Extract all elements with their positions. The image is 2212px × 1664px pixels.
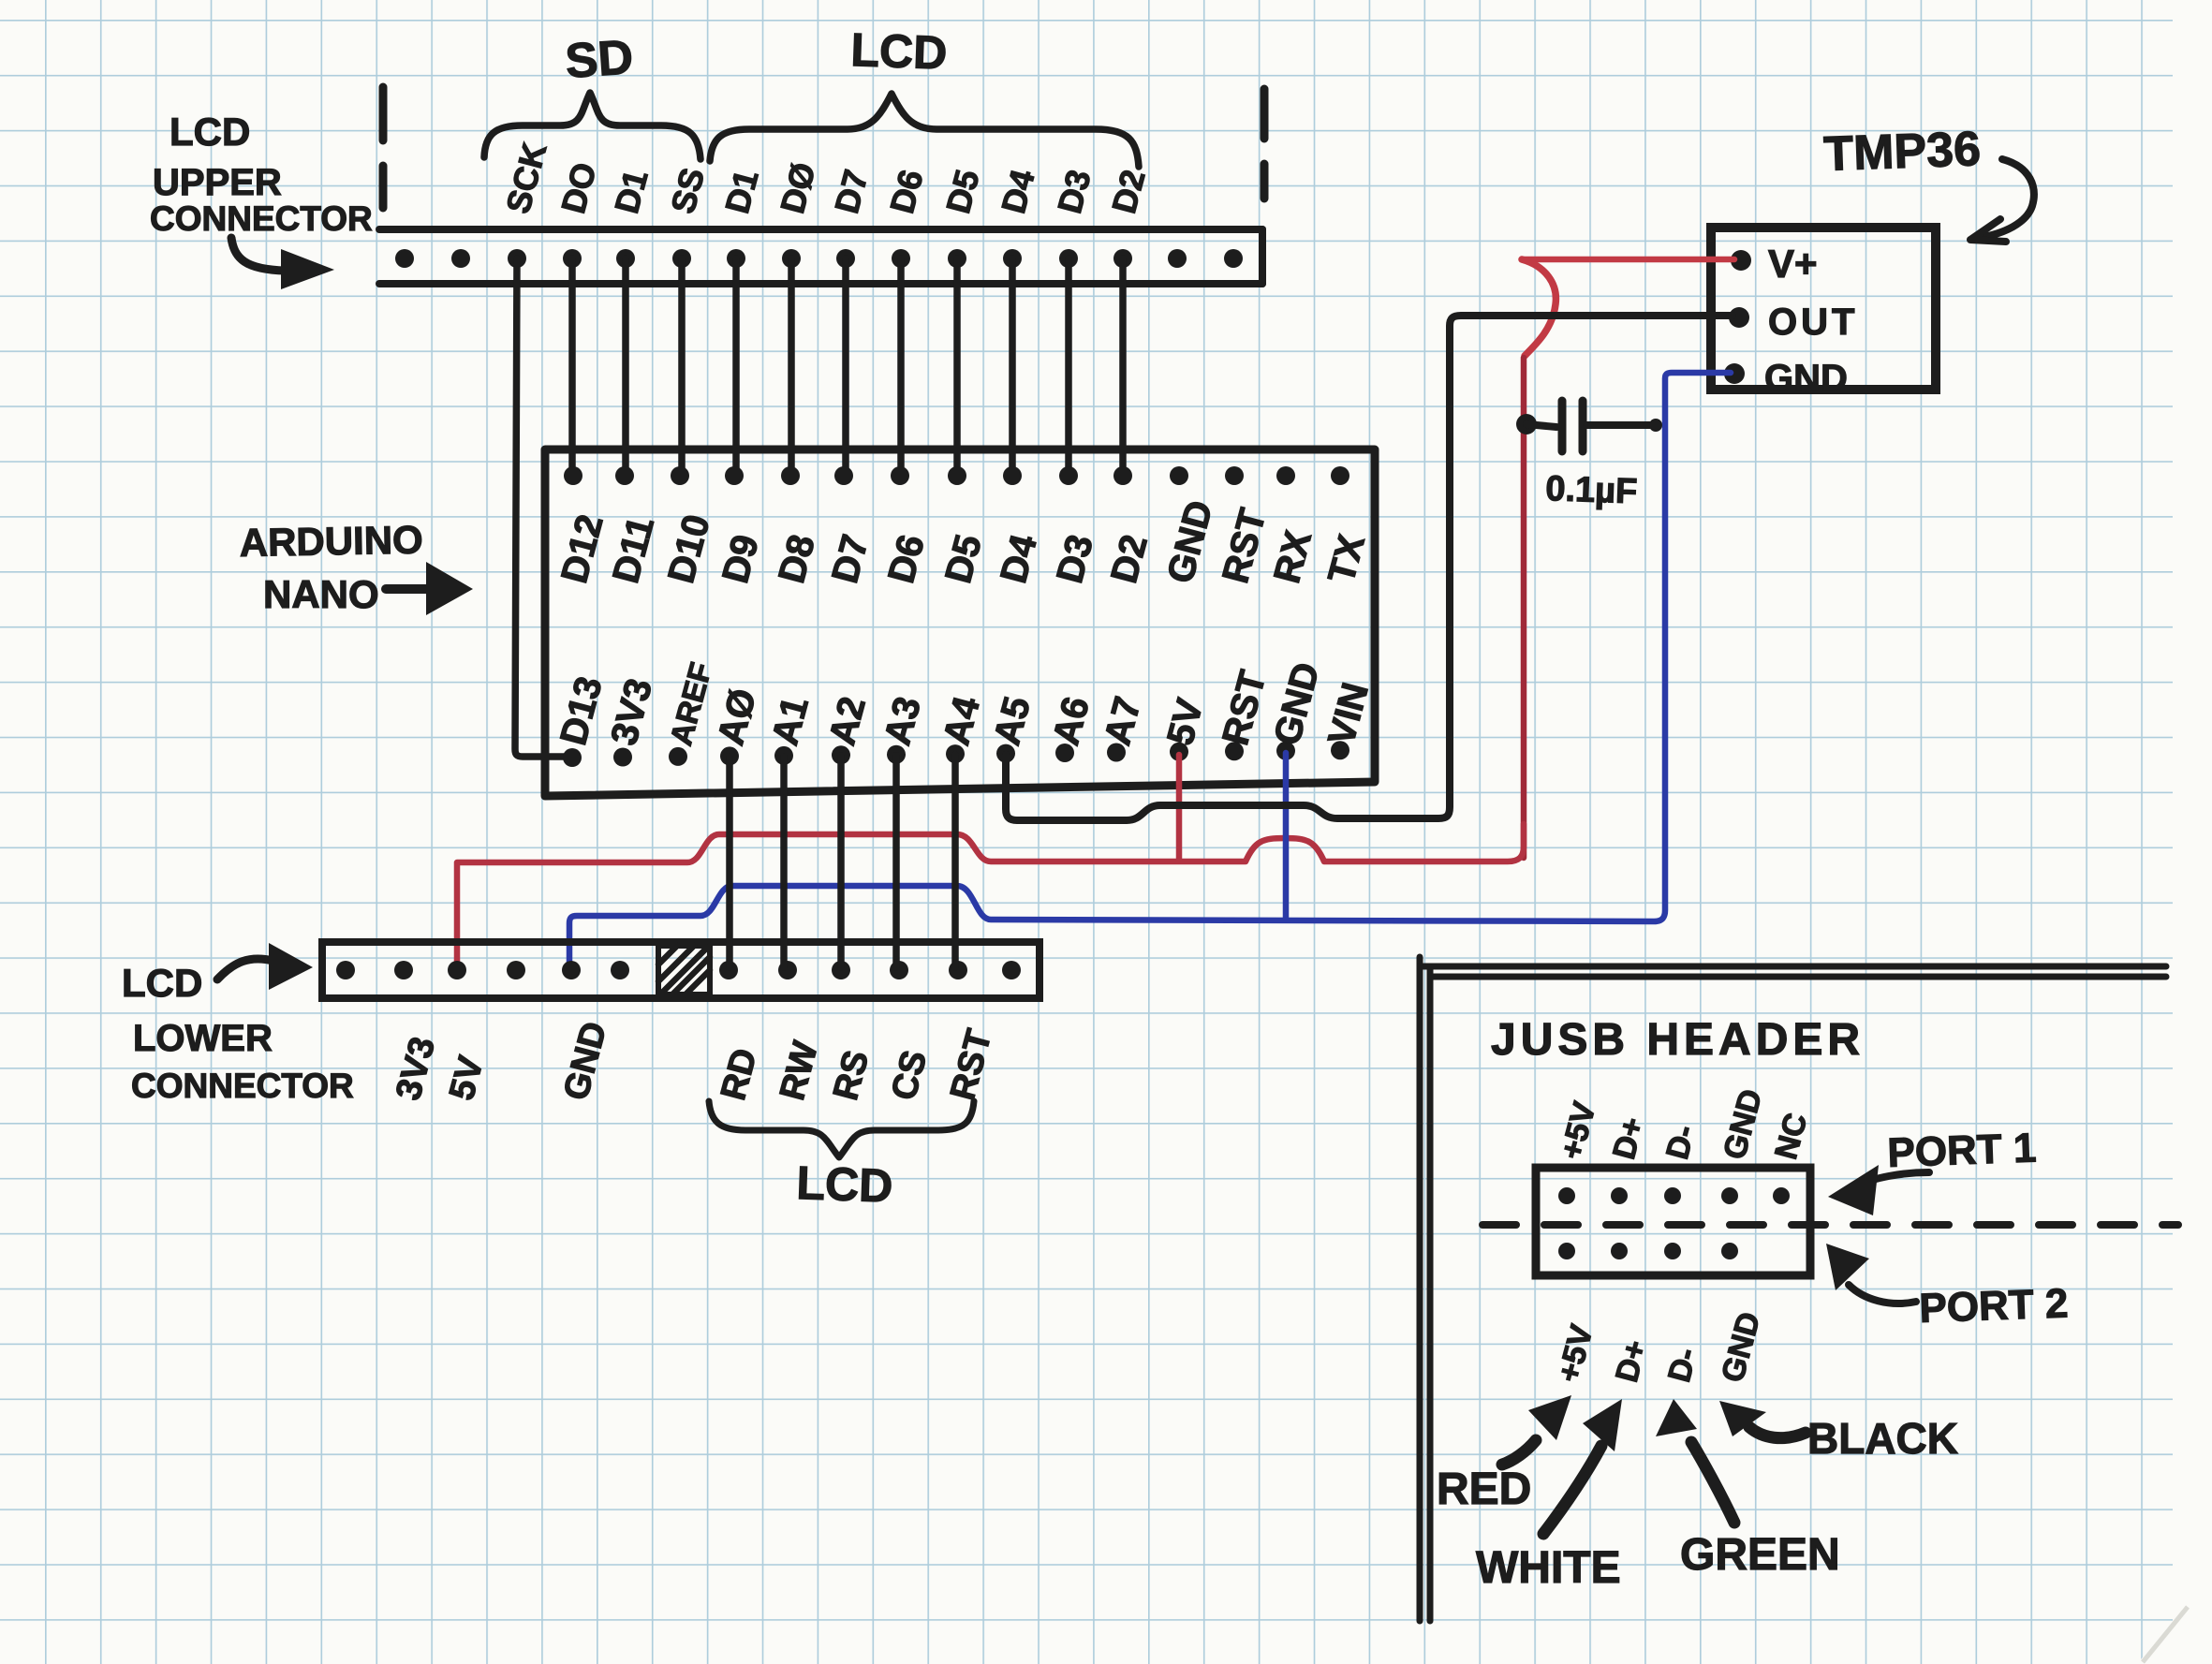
wire A3-CS — [892, 756, 900, 967]
svg-text:PORT 2: PORT 2 — [1919, 1280, 2070, 1332]
JUSB bottom pin labels — [1551, 1308, 1767, 1386]
label PORT 1 with arrow — [1828, 1125, 2037, 1215]
wire GND (blue): Arduino GND stub — [1283, 753, 1290, 920]
svg-text:LCD: LCD — [850, 23, 949, 80]
Arduino top row pin labels — [553, 496, 1373, 587]
wire D5-D5 — [953, 258, 961, 476]
svg-text:CONNECTOR: CONNECTOR — [150, 199, 373, 238]
IC U1: Arduino Nano body — [545, 449, 1375, 796]
label WHITE with arrow to D+ — [1476, 1399, 1622, 1593]
Arduino top row pins — [564, 466, 1349, 485]
svg-text:OUT: OUT — [1768, 302, 1858, 343]
svg-text:TMP36: TMP36 — [1822, 122, 1982, 182]
JUSB port2 pins — [1558, 1243, 1738, 1259]
label GREEN with arrow to D- — [1656, 1399, 1840, 1580]
svg-text:LCD: LCD — [170, 110, 250, 154]
JUSB top pin labels — [1554, 1085, 1814, 1163]
wire A0-RD — [726, 757, 733, 967]
svg-text:ARDUINO: ARDUINO — [239, 518, 423, 565]
label PORT 2 with arrow — [1826, 1244, 2069, 1332]
svg-text:CONNECTOR: CONNECTOR — [131, 1067, 354, 1105]
wire GND (blue): bottom bus — [569, 373, 1731, 966]
wire A2-RS — [837, 756, 845, 967]
wire SS-D10 — [678, 258, 686, 476]
connector J3: JUSB header box — [1536, 1168, 1810, 1275]
svg-text:SD: SD — [564, 30, 635, 89]
TMP36 pin GND — [1724, 363, 1745, 384]
wire D1-D11 — [622, 258, 629, 476]
svg-text:LCD: LCD — [796, 1156, 894, 1213]
label: ARDUINO NANO — [239, 518, 423, 616]
wire D1-D9 — [732, 258, 740, 476]
svg-text:NANO: NANO — [263, 572, 379, 616]
label: LCD UPPER CONNECTOR — [150, 110, 373, 238]
svg-text:GND: GND — [1764, 358, 1848, 399]
wire: Arduino A5 to TMP36 OUT — [1006, 316, 1733, 820]
wire +5V (red): TMP36 V+ horizontal — [1522, 257, 1734, 263]
upper connector pins (dots) — [395, 249, 1243, 268]
TMP36 pin labels — [1764, 242, 1858, 399]
IC U2: TMP36 sensor body — [1711, 228, 1936, 390]
arrow to upper connector — [231, 238, 334, 289]
dashed separator between ports — [1482, 1221, 2178, 1229]
TMP36 pin OUT — [1729, 307, 1749, 328]
svg-text:JUSB HEADER: JUSB HEADER — [1491, 1015, 1865, 1065]
wire D3-D3 — [1065, 258, 1072, 476]
svg-text:WHITE: WHITE — [1476, 1543, 1621, 1593]
brace: LCD signals group — [709, 1101, 974, 1157]
wire DØ-D8 — [788, 258, 795, 476]
TMP36 pin V+ — [1731, 250, 1751, 271]
wire +5V (red): hop over OUT wire — [1522, 259, 1556, 356]
connector J1: LCD upper connector strip — [379, 229, 1262, 284]
JUSB port1 pins — [1558, 1187, 1790, 1204]
capacitor C1 0.1uF — [1526, 401, 1662, 451]
key: hatched blocked position — [658, 946, 710, 994]
node: upper connector left dashed end — [379, 87, 388, 208]
arrow to lower connector — [217, 943, 313, 990]
wire +5V (red): vertical down to bus — [1521, 358, 1527, 858]
svg-text:BLACK: BLACK — [1807, 1414, 1958, 1463]
connector J2: LCD lower connector strip — [322, 942, 1040, 998]
wire +5V (red): bottom bus — [457, 824, 1524, 965]
arrow from TMP36 label to box — [1970, 159, 2034, 242]
upper connector pin labels — [498, 139, 1153, 217]
brace: LCD group — [710, 94, 1139, 167]
label BLACK with arrow to GND — [1719, 1401, 1958, 1463]
Arduino bottom row pin labels — [553, 658, 1377, 749]
wire D6-D6 — [897, 258, 905, 476]
svg-text:GREEN: GREEN — [1680, 1530, 1840, 1580]
brace: SD group — [484, 93, 700, 159]
svg-text:V+: V+ — [1768, 242, 1818, 286]
wire: SCK to D13 (around left side of Arduino) — [515, 258, 568, 757]
node: capacitor tap on +5V wire — [1516, 414, 1537, 434]
wire D7-D7 — [842, 258, 849, 476]
wire +5V (red): Arduino 5V stub — [1176, 755, 1183, 860]
svg-text:PORT 1: PORT 1 — [1887, 1125, 2038, 1176]
label RED with arrow to +5V — [1437, 1395, 1571, 1514]
node: upper connector right dashed end — [1261, 89, 1269, 199]
svg-text:LCD: LCD — [122, 961, 202, 1005]
Arduino bottom row pins — [563, 741, 1349, 767]
label: LCD LOWER CONNECTOR — [122, 961, 354, 1105]
wire DO-D12 — [568, 258, 576, 476]
wire A1-RW — [780, 757, 788, 967]
wire D2-D2 — [1119, 258, 1127, 476]
wire D4-D4 — [1009, 258, 1016, 476]
svg-text:UPPER: UPPER — [153, 162, 282, 203]
lower connector pins (dots) — [336, 961, 1021, 979]
wire A4-RST — [951, 755, 959, 967]
svg-text:LOWER: LOWER — [133, 1018, 273, 1059]
arrow to Arduino — [386, 562, 473, 615]
border: JUSB header area outline — [1420, 957, 2166, 1621]
lower connector pin labels — [389, 1018, 999, 1104]
svg-text:RED: RED — [1437, 1465, 1531, 1514]
svg-text:0.1µF: 0.1µF — [1545, 469, 1638, 511]
